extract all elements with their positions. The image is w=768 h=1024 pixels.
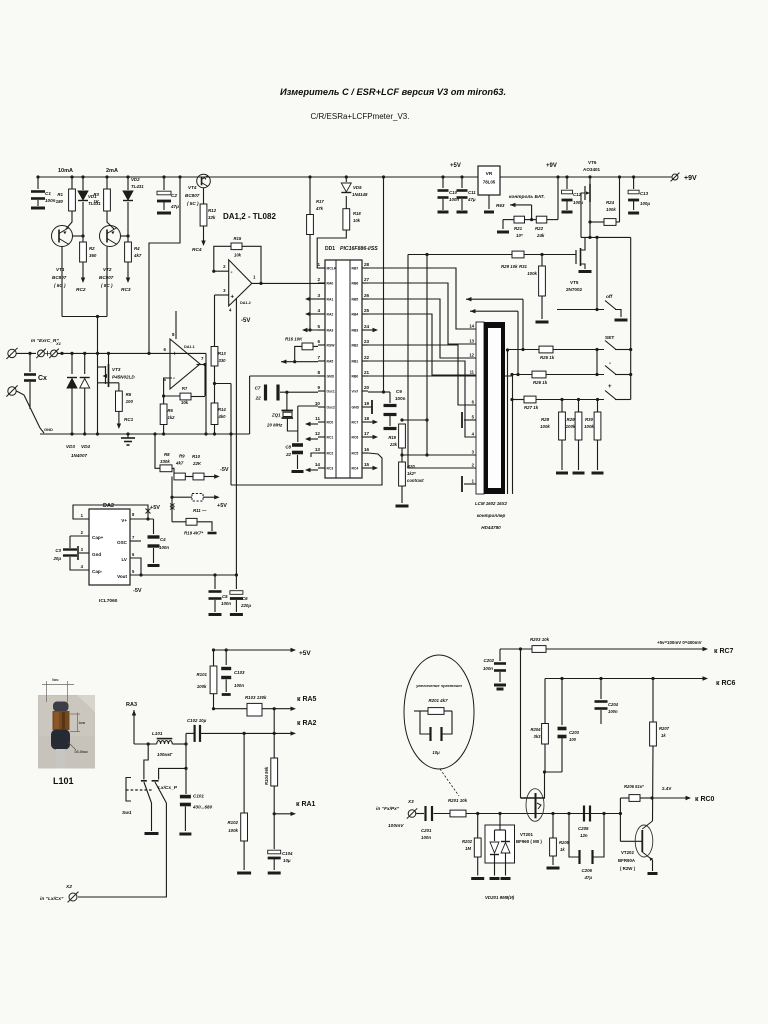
svg-text:100μ: 100μ xyxy=(573,200,583,205)
svg-text:ZQ1: ZQ1 xyxy=(271,413,281,418)
wire: main +5V/+9V top rail xyxy=(38,176,478,178)
IC DD1 PIC16F886-I/SS body xyxy=(325,260,362,478)
svg-text:C102 10μ: C102 10μ xyxy=(187,718,207,723)
svg-text:RB1: RB1 xyxy=(352,360,359,364)
svg-text:RB3: RB3 xyxy=(352,329,359,333)
svg-text:R6: R6 xyxy=(168,408,174,413)
svg-text:TL431: TL431 xyxy=(131,184,144,189)
wire switch pole1 drop xyxy=(144,744,148,780)
pin 27 RB6 stub and label xyxy=(362,282,368,284)
tick marks on +5V riser xyxy=(170,504,175,510)
svg-text:C101: C101 xyxy=(193,794,204,799)
terminal X2 xyxy=(69,893,77,901)
svg-text:R206 51к*: R206 51к* xyxy=(624,784,644,789)
svg-text:R63: R63 xyxy=(496,203,505,208)
wire LCD side riser to SET line xyxy=(507,350,509,494)
VT3 drain stub to input wire xyxy=(108,353,110,364)
capacitor C6 220u xyxy=(235,575,237,589)
svg-text:C/R/ESRa+LCFPmeter_V3.: C/R/ESRa+LCFPmeter_V3. xyxy=(311,112,410,121)
svg-text:100k: 100k xyxy=(197,684,207,689)
wire riser to R19 node xyxy=(426,255,428,456)
arrow -5V after R10 xyxy=(204,476,217,478)
svg-text:17: 17 xyxy=(364,431,370,436)
balloon parallel capacitor 10u xyxy=(420,711,430,734)
svg-text:+5v=100mV 0=400mV: +5v=100mV 0=400mV xyxy=(657,640,702,645)
svg-text:Cap+: Cap+ xyxy=(92,535,104,540)
pin 10 Osc2 stub and label xyxy=(318,406,325,408)
pin 20 Vref stub and label xyxy=(362,390,368,392)
svg-text:контроллер: контроллер xyxy=(477,513,506,518)
svg-text:RB4: RB4 xyxy=(352,313,359,317)
wire switch common riser x630 xyxy=(630,237,632,399)
terminal X1 bottom xyxy=(8,387,16,395)
svg-text:DA1,2 - TL082: DA1,2 - TL082 xyxy=(223,212,276,221)
svg-text:10μ: 10μ xyxy=(283,858,291,863)
svg-text:in “Fx/Px”: in “Fx/Px” xyxy=(376,806,400,812)
svg-text:contrast: contrast xyxy=(407,478,424,483)
bus RB1 to LCD pin4 RS xyxy=(368,361,476,437)
svg-text:BC807: BC807 xyxy=(52,275,67,280)
wire VT2 base to VD2/R4 node xyxy=(121,235,128,237)
svg-text:R10: R10 xyxy=(192,454,201,459)
VD201 ground bars xyxy=(490,877,500,880)
LCD pin1 GND ground bar xyxy=(464,483,476,485)
pin 23 RB2 stub and label xyxy=(362,344,368,346)
svg-text:LV: LV xyxy=(121,557,127,562)
arrow RC4 pin15 xyxy=(368,467,376,469)
capacitor C206 47u parallel loop xyxy=(569,814,579,858)
svg-text:RC3: RC3 xyxy=(327,467,334,471)
svg-text:330: 330 xyxy=(219,358,227,363)
svg-text:28: 28 xyxy=(364,262,370,267)
svg-text:+: + xyxy=(173,352,177,358)
resistor R14 4k0 xyxy=(211,403,218,425)
arrow to RC4 xyxy=(203,226,205,241)
arrow to RC3 xyxy=(127,262,129,278)
svg-text:Osc1: Osc1 xyxy=(327,390,335,394)
VT201 drain riser to RC7 line xyxy=(520,649,522,798)
resistor R25 1k xyxy=(508,349,540,351)
svg-text:9: 9 xyxy=(317,385,320,390)
DA2 LV wire to Vout xyxy=(130,558,141,575)
svg-text:100k: 100k xyxy=(606,207,616,212)
pin 9 Osc1 stub and label xyxy=(318,390,325,392)
svg-text:C205: C205 xyxy=(578,826,589,831)
svg-text:R11 —: R11 — xyxy=(193,508,207,513)
wire pin3 riser R13 R14 column xyxy=(215,294,229,296)
pin 12 RC1 stub and label xyxy=(318,436,325,438)
svg-text:BFR90A: BFR90A xyxy=(618,858,636,863)
wire to jack xyxy=(17,352,37,354)
svg-text:GND: GND xyxy=(327,375,335,379)
svg-text:RB6: RB6 xyxy=(352,282,359,286)
svg-text:R17: R17 xyxy=(316,199,324,204)
wire R204/C203 bottoms to VT201 top bar xyxy=(544,744,546,772)
svg-text:R207: R207 xyxy=(659,726,670,731)
pin19 GND bar xyxy=(368,406,372,408)
wire R22 to +9V rail xyxy=(557,177,559,220)
svg-text:1k: 1k xyxy=(560,847,565,852)
wire signal to VT202 base xyxy=(620,840,642,842)
VT6 drain down xyxy=(589,202,591,237)
svg-text:R1: R1 xyxy=(57,192,63,197)
svg-text:RA2: RA2 xyxy=(327,313,334,317)
svg-text:RC7: RC7 xyxy=(352,421,359,425)
capacitor C203 100n xyxy=(561,679,563,726)
wire R17 down to RA3 pin5 line xyxy=(309,235,311,331)
svg-text:+9V: +9V xyxy=(684,175,697,182)
svg-text:контроль БАТ.: контроль БАТ. xyxy=(509,194,545,200)
svg-text:R9: R9 xyxy=(179,454,185,459)
wire link between SET and minus rows xyxy=(596,350,598,375)
svg-text:RA1: RA1 xyxy=(327,298,334,302)
capacitor C4 100n xyxy=(153,519,155,534)
wire VT1 base to VD1/R2 node xyxy=(73,235,83,237)
svg-text:R25 1k: R25 1k xyxy=(540,355,555,360)
capacitor C3 20u xyxy=(69,536,71,548)
svg-text:100n: 100n xyxy=(45,198,56,203)
resistor R2 360 xyxy=(82,236,84,242)
ground symbol on rail xyxy=(121,437,135,439)
wire+arrow RA3 pin5 xyxy=(304,329,325,331)
svg-text:20μ: 20μ xyxy=(52,556,61,561)
svg-text:10μ: 10μ xyxy=(432,750,440,755)
svg-text:47μ: 47μ xyxy=(583,875,592,880)
pin 25 RB4 stub and label xyxy=(362,313,368,315)
wire R15 left to pin2 xyxy=(214,246,231,271)
svg-text:C6: C6 xyxy=(242,596,248,601)
pin 19 GND stub and label xyxy=(362,406,368,408)
svg-text:R31: R31 xyxy=(519,264,528,269)
pin 2 RA0 stub and label xyxy=(318,282,325,284)
svg-text:47μ: 47μ xyxy=(467,197,476,202)
svg-text:R29: R29 xyxy=(566,417,575,422)
svg-text:GND: GND xyxy=(44,427,53,432)
svg-text:100n: 100n xyxy=(421,835,431,840)
arrow RC6 pin17 xyxy=(368,436,376,438)
wire RC6 riser to R204 xyxy=(544,679,546,724)
resistor R22 24k xyxy=(525,219,537,221)
svg-text:RB7: RB7 xyxy=(352,267,359,271)
svg-text:VD4: VD4 xyxy=(81,444,90,449)
pin 4 RA2 stub and label xyxy=(318,313,325,315)
svg-text:RA3: RA3 xyxy=(327,329,334,333)
pin 7 RA5 stub and label xyxy=(318,360,325,362)
svg-text:1k: 1k xyxy=(661,733,666,738)
svg-text:VT6: VT6 xyxy=(588,160,597,165)
wire C-range feed from rail down to input node xyxy=(178,175,181,178)
capacitor C8 22 xyxy=(292,443,303,447)
svg-text:+: + xyxy=(608,384,612,390)
svg-text:100n: 100n xyxy=(608,709,618,714)
svg-text:3: 3 xyxy=(317,293,320,298)
capacitor C12 100u xyxy=(565,175,568,178)
balloon dashed pointer xyxy=(440,769,459,796)
pin 24 RB3 stub and label xyxy=(362,329,368,331)
svg-text:( 5C ): ( 5C ) xyxy=(187,201,199,206)
arrow RC3 pin14 xyxy=(307,469,318,471)
svg-text:R4: R4 xyxy=(134,246,140,251)
capacitor C5 100n xyxy=(213,573,216,576)
svg-text:C10: C10 xyxy=(449,190,458,195)
wire Vout -5V line xyxy=(130,574,236,576)
terminal X3 xyxy=(408,810,416,818)
svg-text:R14: R14 xyxy=(218,407,226,412)
svg-text:100n: 100n xyxy=(234,683,244,688)
svg-text:4k7: 4k7 xyxy=(175,461,184,466)
DA2 pin1 +5V loop xyxy=(73,505,148,519)
VT6 gate wire to R24 left / drain node xyxy=(581,193,585,237)
svg-text:AO3401: AO3401 xyxy=(583,167,601,172)
voltage regulator VR 78L05 xyxy=(478,166,500,195)
VD201 right diode up xyxy=(501,841,510,843)
svg-text:100μ: 100μ xyxy=(640,201,650,206)
resistor R28 100k xyxy=(560,398,563,401)
svg-text:24: 24 xyxy=(364,324,370,329)
resistor R27 1k xyxy=(512,399,524,401)
svg-text:-5V: -5V xyxy=(241,318,250,324)
svg-text:Vref: Vref xyxy=(352,390,359,394)
svg-text:( R2W ): ( R2W ) xyxy=(620,866,636,871)
svg-text:C2: C2 xyxy=(171,193,177,198)
VT5 drain wire xyxy=(581,237,586,250)
balloon увеличение чувствит xyxy=(404,655,474,769)
capacitor C9 100n xyxy=(384,391,391,393)
capacitor C10 100n xyxy=(441,175,444,178)
svg-text:-5V: -5V xyxy=(133,588,142,594)
svg-text:12: 12 xyxy=(469,353,474,358)
svg-text:C11: C11 xyxy=(468,190,476,195)
svg-text:L101: L101 xyxy=(53,776,74,786)
svg-text:100k: 100k xyxy=(527,271,537,276)
resistor R202 1M xyxy=(477,814,479,839)
svg-text:OSC: OSC xyxy=(117,540,128,545)
arrow to RC2 xyxy=(82,262,84,278)
svg-text:1M: 1M xyxy=(465,846,471,851)
terminal X1 left xyxy=(8,349,16,357)
svg-text:10k: 10k xyxy=(234,253,242,258)
wire R29 to VT5 gate xyxy=(524,254,576,256)
capacitor C11 47u xyxy=(460,175,463,178)
svg-text:VT4: VT4 xyxy=(188,185,197,190)
svg-text:к RC0: к RC0 xyxy=(695,796,715,803)
DA2 pin2 to C3 xyxy=(70,535,89,537)
svg-text:RC6: RC6 xyxy=(352,436,359,440)
wire switch sense line to minus row xyxy=(470,310,518,312)
IC DA2 ICL7660 box xyxy=(89,509,130,585)
svg-text:330k: 330k xyxy=(160,459,170,464)
svg-text:off: off xyxy=(606,294,612,300)
svg-text:R202: R202 xyxy=(462,839,473,844)
resistor R6 1k2 xyxy=(160,404,167,425)
resistor R30 100k xyxy=(596,398,599,401)
arrow RC1 below R5 xyxy=(118,411,120,425)
svg-text:2N7002: 2N7002 xyxy=(566,287,583,292)
VT3 riser from box bus to GND rail xyxy=(97,317,99,435)
wire RC2 pin13 loop under chip to RC5 pin16 xyxy=(311,453,318,457)
svg-text:X1: X1 xyxy=(55,341,62,346)
svg-text:R21: R21 xyxy=(514,226,523,231)
svg-text:2mA: 2mA xyxy=(106,168,118,174)
svg-text:HD44780: HD44780 xyxy=(481,525,501,530)
svg-text:22: 22 xyxy=(255,396,262,401)
svg-text:Измеритель C / ESR+LCF версия: Измеритель C / ESR+LCF версия V3 от miro… xyxy=(280,87,506,97)
svg-text:13: 13 xyxy=(469,339,474,344)
svg-text:R101: R101 xyxy=(197,672,208,677)
svg-text:R201 4k7: R201 4k7 xyxy=(428,698,448,703)
resistor R26 1k xyxy=(512,374,532,376)
svg-text:100n: 100n xyxy=(221,601,231,606)
wire V+ pin8 xyxy=(130,518,154,520)
resistor R204 3k3 xyxy=(542,724,549,745)
svg-text:к RA5: к RA5 xyxy=(297,696,317,703)
wire DA1.1 +input to R6 xyxy=(164,378,172,404)
wire R15 right to output xyxy=(242,246,261,283)
bus RB0 through R26 to minus switch xyxy=(368,375,512,377)
LCD pin header column xyxy=(476,322,484,494)
resistor R11 dashed xyxy=(172,496,192,498)
svg-text:5мм: 5мм xyxy=(52,678,59,682)
svg-text:27: 27 xyxy=(364,277,370,282)
svg-text:-: - xyxy=(173,376,175,382)
wire L101 right to C101 riser xyxy=(172,743,186,745)
svg-text:+5V: +5V xyxy=(450,163,461,169)
VT5 source to ground xyxy=(581,264,586,269)
svg-text:RA5: RA5 xyxy=(327,360,334,364)
L101 photo inductor body xyxy=(53,702,69,712)
LCD pin5 RW ground bar xyxy=(464,419,476,421)
svg-text:R16 10K: R16 10K xyxy=(285,337,303,342)
wire RA5 line xyxy=(214,708,248,710)
+5V mark x xyxy=(146,509,151,514)
capacitor C101 430...680 xyxy=(180,795,191,799)
svg-text:RC2: RC2 xyxy=(76,287,86,293)
wire switch sense line to SET row xyxy=(466,298,523,300)
svg-text:DA1.1: DA1.1 xyxy=(184,345,195,349)
svg-text:Cx: Cx xyxy=(38,375,47,382)
svg-text:C203: C203 xyxy=(569,730,580,735)
pin 21 RB0 stub and label xyxy=(362,375,368,377)
transistor VT2 BC807 (5C) xyxy=(100,226,121,247)
svg-text:10: 10 xyxy=(315,401,321,406)
svg-text:R24: R24 xyxy=(606,200,615,205)
svg-text:VD5: VD5 xyxy=(353,185,362,190)
resistor R19 4K7* xyxy=(172,521,186,523)
svg-text:26: 26 xyxy=(364,293,370,298)
svg-text:-: - xyxy=(231,270,233,276)
resistor R20 1k2* contrast xyxy=(399,462,406,486)
svg-text:C103: C103 xyxy=(234,670,245,675)
svg-text:RB0: RB0 xyxy=(352,375,359,379)
wire R13/R14 junction to GND rail riser xyxy=(215,383,232,385)
svg-text:7: 7 xyxy=(317,355,320,360)
wire R3 to VT2 emitter xyxy=(107,211,114,229)
svg-text:R7: R7 xyxy=(182,386,188,391)
svg-text:100k: 100k xyxy=(228,828,238,833)
svg-text:R18: R18 xyxy=(353,211,361,216)
wire R16 left down to RA5 line xyxy=(295,346,302,361)
svg-text:100мкГ: 100мкГ xyxy=(157,752,173,757)
svg-text:24k: 24k xyxy=(536,233,545,238)
svg-text:RC4: RC4 xyxy=(192,247,202,253)
resistor R29 10k xyxy=(512,251,524,258)
diode VD5 1N4148 xyxy=(345,175,348,178)
svg-text:R204: R204 xyxy=(530,727,541,732)
svg-text:8: 8 xyxy=(317,370,320,375)
resistor R5 100 xyxy=(116,391,123,411)
wire GND pin8 riser xyxy=(250,375,318,377)
svg-text:R205: R205 xyxy=(559,840,570,845)
svg-text:4: 4 xyxy=(317,308,320,313)
arrow RC1 pin12 xyxy=(307,438,318,440)
svg-text:180: 180 xyxy=(56,199,64,204)
wire input to GND-rail riser xyxy=(205,353,207,434)
svg-text:LCM 1602 16X2: LCM 1602 16X2 xyxy=(475,501,508,506)
svg-text:5: 5 xyxy=(317,324,320,329)
svg-text:430...680: 430...680 xyxy=(192,805,213,810)
wire chain branch down to R11 xyxy=(171,477,173,522)
wire R19 to LCD pin3 Vo xyxy=(401,448,403,462)
svg-text:ICL7060: ICL7060 xyxy=(99,598,118,604)
svg-text:RC0: RC0 xyxy=(327,421,334,425)
svg-text:10k: 10k xyxy=(353,218,361,223)
DA2 pin3 Gnd bar xyxy=(79,552,89,554)
capacitor C7 22 xyxy=(264,385,267,401)
svg-text:R5: R5 xyxy=(126,392,132,397)
svg-text:+: + xyxy=(231,295,235,301)
svg-text:Cap-: Cap- xyxy=(92,569,103,574)
svg-text:100: 100 xyxy=(569,737,577,742)
svg-text:22K: 22K xyxy=(192,461,202,466)
svg-text:R22: R22 xyxy=(535,226,544,231)
svg-text:RB5: RB5 xyxy=(352,298,359,302)
transistor VT202 BFR90A xyxy=(635,825,653,857)
resistor R101 100k xyxy=(212,648,215,651)
wire collector bus of VT1/VT2 xyxy=(62,316,107,318)
capacitor C202 100n xyxy=(499,649,501,661)
svg-text:78L05: 78L05 xyxy=(483,180,496,185)
resistor R205 1k xyxy=(552,814,554,839)
svg-text:RSW: RSW xyxy=(327,344,336,348)
svg-text:47k: 47k xyxy=(315,206,324,211)
crystal ZQ1 20 MHz xyxy=(286,392,288,410)
capacitor C104 10u xyxy=(273,814,275,849)
svg-text:C206: C206 xyxy=(582,868,593,873)
DA1.1 pin8 stub xyxy=(175,311,177,339)
svg-text:10*: 10* xyxy=(516,233,523,238)
diode VD2 TL431 xyxy=(126,175,129,178)
svg-text:C201: C201 xyxy=(421,828,432,833)
svg-text:C5: C5 xyxy=(222,594,228,599)
resistor R1 180 xyxy=(70,175,73,178)
svg-text:L101: L101 xyxy=(152,731,163,736)
svg-text:C13: C13 xyxy=(640,191,649,196)
svg-text:R13: R13 xyxy=(218,351,226,356)
pin 18 RC7 stub and label xyxy=(362,421,368,423)
arrow +5V after R11 xyxy=(203,496,217,498)
svg-text:VD2: VD2 xyxy=(131,177,140,182)
svg-text:R27 1k: R27 1k xyxy=(524,405,539,410)
pin 16 RC5 stub and label xyxy=(362,452,368,454)
wire pin8-GND riser to GND rail xyxy=(249,376,251,434)
svg-text:P45N02LD: P45N02LD xyxy=(112,375,135,380)
wire RC6 line xyxy=(545,678,704,680)
capacitor C201 100n series xyxy=(416,813,424,815)
R19* right ground xyxy=(197,522,212,531)
GND rail xyxy=(40,433,250,435)
svg-text:100: 100 xyxy=(126,399,134,404)
svg-text:VT202: VT202 xyxy=(621,850,634,855)
